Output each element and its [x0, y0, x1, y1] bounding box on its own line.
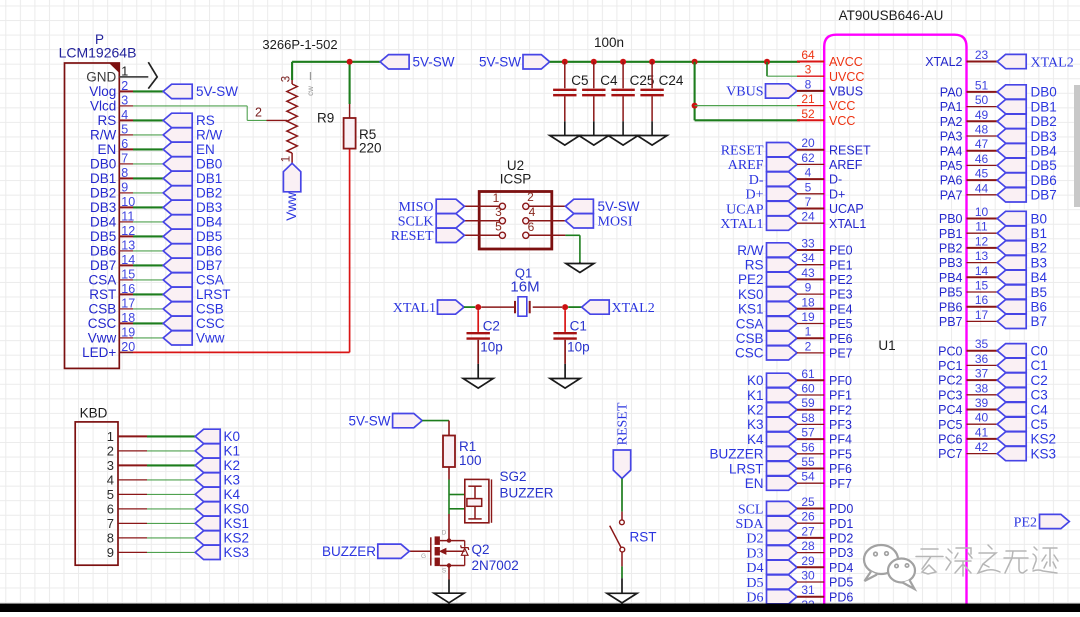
svg-text:CSB: CSB: [196, 302, 224, 317]
svg-text:UCAP: UCAP: [829, 202, 864, 216]
svg-text:RESET: RESET: [616, 402, 631, 445]
svg-text:PE0: PE0: [829, 244, 853, 258]
svg-text:RS: RS: [98, 113, 117, 128]
svg-text:PD1: PD1: [829, 517, 853, 531]
svg-text:PE3: PE3: [829, 288, 853, 302]
svg-text:Vlog: Vlog: [89, 84, 116, 99]
svg-text:56: 56: [801, 440, 815, 454]
svg-text:21: 21: [801, 92, 815, 106]
svg-text:B3: B3: [1031, 255, 1048, 270]
svg-text:K3: K3: [747, 417, 764, 432]
svg-text:ICSP: ICSP: [500, 172, 532, 187]
svg-text:D4: D4: [746, 561, 763, 576]
svg-text:DB1: DB1: [90, 171, 116, 186]
svg-text:PC4: PC4: [938, 403, 962, 417]
svg-text:KS3: KS3: [224, 545, 250, 560]
svg-text:KS2: KS2: [1031, 432, 1057, 447]
svg-text:41: 41: [975, 425, 989, 439]
svg-text:RS: RS: [196, 113, 215, 128]
svg-text:28: 28: [801, 539, 815, 553]
svg-text:B6: B6: [1031, 300, 1048, 315]
svg-text:C1: C1: [1031, 358, 1048, 373]
svg-text:SCL: SCL: [738, 502, 764, 517]
svg-text:8: 8: [805, 77, 812, 91]
svg-text:5V-SW: 5V-SW: [479, 55, 521, 70]
svg-text:AVCC: AVCC: [829, 55, 863, 69]
svg-text:23: 23: [975, 48, 989, 62]
svg-text:5V-SW: 5V-SW: [598, 199, 640, 214]
svg-text:DB4: DB4: [1031, 144, 1058, 159]
svg-text:C0: C0: [1031, 344, 1048, 359]
svg-text:BUZZER: BUZZER: [500, 486, 554, 501]
svg-text:D: D: [442, 530, 447, 537]
svg-text:D5: D5: [746, 576, 763, 591]
svg-text:PE1: PE1: [829, 258, 853, 272]
svg-text:Vlcd: Vlcd: [90, 99, 116, 114]
svg-text:DB2: DB2: [90, 186, 116, 201]
svg-text:KS2: KS2: [224, 531, 250, 546]
svg-text:PE6: PE6: [829, 332, 853, 346]
svg-text:50: 50: [975, 93, 989, 107]
svg-text:DB1: DB1: [196, 171, 222, 186]
svg-text:VBUS: VBUS: [829, 85, 863, 99]
svg-text:PC1: PC1: [938, 359, 962, 373]
svg-text:C5: C5: [1031, 417, 1048, 432]
svg-text:24: 24: [801, 210, 815, 224]
svg-text:PC2: PC2: [938, 374, 962, 388]
svg-text:CSA: CSA: [736, 316, 764, 331]
svg-text:K2: K2: [224, 458, 241, 473]
svg-text:B1: B1: [1031, 226, 1048, 241]
svg-text:55: 55: [801, 455, 815, 469]
svg-text:15: 15: [975, 279, 989, 293]
svg-text:PD0: PD0: [829, 502, 853, 516]
svg-text:1: 1: [805, 325, 812, 339]
svg-text:DB6: DB6: [1031, 173, 1057, 188]
svg-text:30: 30: [801, 569, 815, 583]
svg-text:PE2: PE2: [1014, 515, 1037, 530]
svg-text:DB5: DB5: [90, 229, 116, 244]
svg-text:AREF: AREF: [829, 158, 863, 172]
svg-text:DB1: DB1: [1031, 99, 1057, 114]
svg-text:PE2: PE2: [829, 273, 853, 287]
svg-text:12: 12: [975, 234, 989, 248]
svg-text:8: 8: [107, 531, 114, 546]
svg-text:PC0: PC0: [938, 344, 962, 358]
svg-text:K4: K4: [747, 432, 764, 447]
svg-text:31: 31: [801, 583, 815, 597]
svg-text:3: 3: [281, 76, 293, 82]
svg-text:SCLK: SCLK: [398, 215, 434, 230]
svg-text:PC6: PC6: [938, 433, 962, 447]
svg-text:UVCC: UVCC: [829, 70, 864, 84]
svg-text:DB3: DB3: [90, 200, 116, 215]
svg-text:RESET: RESET: [721, 144, 764, 159]
svg-text:DB2: DB2: [196, 186, 222, 201]
svg-text:Vww: Vww: [196, 331, 225, 346]
svg-text:LRST: LRST: [196, 287, 231, 302]
svg-text:7: 7: [107, 516, 114, 531]
svg-text:LED+: LED+: [82, 345, 116, 360]
svg-text:PB6: PB6: [939, 300, 963, 314]
svg-text:5: 5: [495, 220, 502, 234]
svg-text:PF5: PF5: [829, 447, 852, 461]
svg-text:10p: 10p: [480, 340, 503, 355]
svg-text:19: 19: [801, 310, 815, 324]
svg-text:11: 11: [975, 220, 988, 234]
svg-text:3: 3: [107, 458, 114, 473]
svg-text:C2: C2: [1031, 373, 1048, 388]
svg-text:Vww: Vww: [284, 192, 299, 221]
svg-text:4: 4: [107, 473, 114, 488]
svg-text:1: 1: [493, 191, 500, 205]
svg-text:34: 34: [801, 251, 815, 265]
svg-text:K0: K0: [224, 429, 241, 444]
svg-text:2: 2: [255, 106, 262, 120]
svg-text:CSB: CSB: [736, 331, 764, 346]
svg-text:XTAL2: XTAL2: [1031, 55, 1074, 70]
svg-text:K3: K3: [224, 473, 241, 488]
svg-text:62: 62: [801, 151, 815, 165]
svg-text:S: S: [442, 568, 447, 575]
svg-text:VCC: VCC: [829, 114, 855, 128]
svg-text:47: 47: [975, 137, 989, 151]
svg-text:MOSI: MOSI: [598, 215, 633, 230]
svg-text:PF0: PF0: [829, 374, 852, 388]
svg-text:PC3: PC3: [938, 388, 962, 402]
svg-text:PF1: PF1: [829, 389, 852, 403]
svg-text:PE7: PE7: [829, 347, 853, 361]
svg-text:C2: C2: [483, 319, 500, 334]
svg-text:PD6: PD6: [829, 590, 853, 604]
svg-text:PA6: PA6: [940, 174, 963, 188]
svg-text:VBUS: VBUS: [726, 85, 763, 100]
svg-text:5: 5: [107, 487, 114, 502]
svg-text:7: 7: [805, 195, 812, 209]
svg-text:5: 5: [805, 180, 812, 194]
svg-text:PB3: PB3: [939, 256, 963, 270]
svg-text:PD3: PD3: [829, 546, 853, 560]
svg-text:DB5: DB5: [1031, 158, 1057, 173]
svg-text:60: 60: [801, 382, 815, 396]
svg-text:DB4: DB4: [196, 215, 223, 230]
svg-text:37: 37: [975, 367, 989, 381]
svg-text:13: 13: [975, 249, 989, 263]
svg-text:4: 4: [529, 205, 536, 219]
svg-text:B5: B5: [1031, 285, 1048, 300]
svg-text:14: 14: [975, 264, 989, 278]
svg-text:KS0: KS0: [738, 287, 764, 302]
svg-text:61: 61: [801, 367, 815, 381]
svg-text:5V-SW: 5V-SW: [348, 413, 390, 428]
svg-text:51: 51: [975, 78, 989, 92]
svg-text:48: 48: [975, 123, 989, 137]
svg-text:CSC: CSC: [196, 316, 225, 331]
svg-text:CSA: CSA: [89, 273, 117, 288]
svg-text:Vww: Vww: [88, 331, 117, 346]
svg-text:PD2: PD2: [829, 532, 853, 546]
svg-text:B7: B7: [1031, 314, 1048, 329]
svg-text:4: 4: [805, 166, 812, 180]
svg-text:45: 45: [975, 167, 989, 181]
svg-text:SDA: SDA: [735, 517, 764, 532]
svg-text:PF3: PF3: [829, 418, 852, 432]
svg-text:B4: B4: [1031, 270, 1048, 285]
svg-text:CSC: CSC: [735, 346, 764, 361]
svg-text:PF4: PF4: [829, 433, 852, 447]
svg-text:AREF: AREF: [728, 158, 764, 173]
svg-text:DB0: DB0: [90, 157, 116, 172]
svg-text:KS1: KS1: [738, 302, 764, 317]
svg-text:3: 3: [495, 205, 502, 219]
svg-text:42: 42: [975, 440, 989, 454]
svg-text:C4: C4: [600, 73, 618, 88]
svg-text:BUZZER: BUZZER: [322, 544, 376, 559]
svg-text:K1: K1: [747, 388, 764, 403]
svg-text:35: 35: [975, 337, 989, 351]
svg-text:LCM19264B: LCM19264B: [59, 45, 137, 61]
svg-text:54: 54: [801, 470, 815, 484]
svg-text:GND: GND: [86, 70, 116, 85]
svg-text:C25: C25: [630, 73, 655, 88]
svg-text:LRST: LRST: [729, 461, 764, 476]
svg-text:CSB: CSB: [89, 302, 117, 317]
svg-text:59: 59: [801, 396, 815, 410]
svg-text:DB0: DB0: [1031, 85, 1057, 100]
svg-text:CSC: CSC: [88, 316, 117, 331]
svg-text:1: 1: [281, 156, 293, 162]
svg-text:RESET: RESET: [391, 229, 434, 244]
svg-text:D+: D+: [745, 188, 763, 203]
svg-text:K1: K1: [224, 444, 241, 459]
svg-text:BUZZER: BUZZER: [710, 447, 764, 462]
svg-text:KS0: KS0: [224, 502, 250, 517]
svg-text:C4: C4: [1031, 402, 1049, 417]
svg-text:25: 25: [801, 495, 815, 509]
svg-text:PA4: PA4: [940, 144, 963, 158]
svg-text:18: 18: [801, 295, 815, 309]
svg-text:G: G: [421, 553, 426, 560]
svg-text:49: 49: [975, 108, 989, 122]
svg-text:PA0: PA0: [940, 86, 963, 100]
svg-text:PF6: PF6: [829, 462, 852, 476]
svg-text:RST: RST: [89, 287, 116, 302]
svg-text:XTAL2: XTAL2: [925, 55, 962, 69]
svg-text:PA2: PA2: [940, 115, 963, 129]
svg-text:R/W: R/W: [737, 243, 764, 258]
svg-text:VCC: VCC: [829, 99, 855, 113]
svg-text:DB6: DB6: [90, 244, 116, 259]
svg-text:10p: 10p: [567, 340, 590, 355]
svg-text:KS3: KS3: [1031, 446, 1057, 461]
svg-text:27: 27: [801, 524, 815, 538]
svg-text:PB7: PB7: [939, 315, 963, 329]
svg-text:44: 44: [975, 181, 989, 195]
svg-text:U1: U1: [878, 338, 895, 353]
svg-text:C24: C24: [659, 73, 684, 88]
svg-text:RESET: RESET: [829, 143, 871, 157]
svg-text:XTAL1: XTAL1: [720, 217, 763, 232]
svg-text:XTAL1: XTAL1: [393, 301, 436, 316]
svg-text:29: 29: [801, 554, 815, 568]
svg-text:D3: D3: [746, 546, 763, 561]
svg-text:KS1: KS1: [224, 516, 250, 531]
svg-text:PA7: PA7: [940, 188, 963, 202]
svg-text:9: 9: [107, 545, 114, 560]
svg-text:CSA: CSA: [196, 273, 224, 288]
svg-text:2: 2: [107, 444, 114, 459]
svg-text:R/W: R/W: [90, 128, 117, 143]
svg-text:PA3: PA3: [940, 130, 963, 144]
svg-text:RST: RST: [630, 530, 657, 545]
svg-text:DB3: DB3: [196, 200, 222, 215]
svg-text:C3: C3: [1031, 388, 1048, 403]
svg-text:D+: D+: [829, 187, 845, 201]
svg-text:26: 26: [801, 510, 815, 524]
svg-text:RS: RS: [745, 258, 764, 273]
svg-text:MISO: MISO: [398, 200, 433, 215]
svg-text:PB0: PB0: [939, 212, 963, 226]
svg-text:PC7: PC7: [938, 447, 962, 461]
svg-text:9: 9: [805, 281, 812, 295]
svg-text:PA5: PA5: [940, 159, 963, 173]
svg-text:DB3: DB3: [1031, 129, 1057, 144]
svg-text:K0: K0: [747, 373, 764, 388]
svg-text:220: 220: [359, 141, 382, 156]
svg-text:DB7: DB7: [90, 258, 116, 273]
svg-text:UCAP: UCAP: [726, 202, 764, 217]
svg-text:SG2: SG2: [500, 469, 527, 484]
svg-text:38: 38: [975, 381, 989, 395]
svg-text:DB7: DB7: [1031, 188, 1057, 203]
svg-text:16: 16: [975, 293, 989, 307]
svg-text:PD5: PD5: [829, 576, 853, 590]
svg-text:3266P-1-502: 3266P-1-502: [262, 37, 337, 52]
svg-text:PF2: PF2: [829, 403, 852, 417]
svg-text:D-: D-: [829, 173, 842, 187]
svg-text:52: 52: [801, 107, 815, 121]
svg-text:40: 40: [975, 411, 989, 425]
svg-text:58: 58: [801, 411, 815, 425]
svg-text:R/W: R/W: [196, 128, 223, 143]
svg-text:EN: EN: [98, 142, 117, 157]
svg-text:PC5: PC5: [938, 418, 962, 432]
svg-text:PB2: PB2: [939, 242, 963, 256]
svg-text:DB5: DB5: [196, 229, 222, 244]
svg-text:46: 46: [975, 152, 989, 166]
svg-text:2: 2: [527, 190, 534, 204]
svg-text:K4: K4: [224, 487, 241, 502]
svg-text:DB6: DB6: [196, 244, 222, 259]
svg-text:DB2: DB2: [1031, 114, 1057, 129]
svg-text:R1: R1: [459, 439, 476, 454]
svg-text:PE5: PE5: [829, 317, 853, 331]
svg-text:DB0: DB0: [196, 157, 222, 172]
svg-text:XTAL2: XTAL2: [612, 301, 655, 316]
svg-text:KBD: KBD: [80, 406, 108, 421]
svg-text:10: 10: [975, 205, 989, 219]
svg-text:D2: D2: [746, 532, 763, 547]
svg-text:100n: 100n: [594, 35, 624, 50]
svg-text:6: 6: [528, 220, 535, 234]
svg-text:36: 36: [975, 352, 989, 366]
svg-text:EN: EN: [196, 142, 215, 157]
svg-text:1: 1: [107, 429, 114, 444]
svg-text:PF7: PF7: [829, 477, 852, 491]
svg-text:17: 17: [975, 308, 989, 322]
svg-text:PB5: PB5: [939, 286, 963, 300]
svg-text:33: 33: [801, 237, 815, 251]
svg-text:PE2: PE2: [738, 272, 764, 287]
svg-text:B0: B0: [1031, 211, 1048, 226]
svg-text:6: 6: [107, 502, 114, 517]
svg-text:2N7002: 2N7002: [472, 558, 519, 573]
svg-text:100: 100: [459, 453, 482, 468]
svg-text:5V-SW: 5V-SW: [196, 84, 238, 99]
svg-text:5V-SW: 5V-SW: [413, 55, 455, 70]
svg-text:3: 3: [805, 63, 812, 77]
svg-text:EN: EN: [745, 476, 764, 491]
svg-text:D6: D6: [746, 591, 763, 606]
svg-text:DB7: DB7: [196, 258, 222, 273]
svg-text:PD4: PD4: [829, 561, 853, 575]
svg-text:PA1: PA1: [940, 100, 963, 114]
svg-text:2: 2: [805, 339, 812, 353]
svg-text:PE4: PE4: [829, 302, 853, 316]
svg-text:B2: B2: [1031, 241, 1048, 256]
svg-text:D-: D-: [749, 173, 764, 188]
svg-text:DB4: DB4: [90, 215, 117, 230]
svg-text:AT90USB646-AU: AT90USB646-AU: [839, 8, 944, 23]
svg-text:57: 57: [801, 426, 815, 440]
svg-text:20: 20: [801, 136, 815, 150]
svg-text:C1: C1: [570, 319, 587, 334]
svg-text:39: 39: [975, 396, 989, 410]
svg-text:R9: R9: [317, 111, 334, 126]
svg-text:PB4: PB4: [939, 271, 963, 285]
svg-text:C5: C5: [571, 73, 588, 88]
svg-text:Q2: Q2: [472, 542, 490, 557]
svg-text:64: 64: [801, 48, 815, 62]
svg-text:XTAL1: XTAL1: [829, 217, 866, 231]
svg-text:43: 43: [801, 266, 815, 280]
svg-text:K2: K2: [747, 403, 764, 418]
svg-text:PB1: PB1: [939, 227, 963, 241]
svg-text:cw: cw: [306, 86, 315, 96]
svg-text:16M: 16M: [510, 279, 539, 296]
